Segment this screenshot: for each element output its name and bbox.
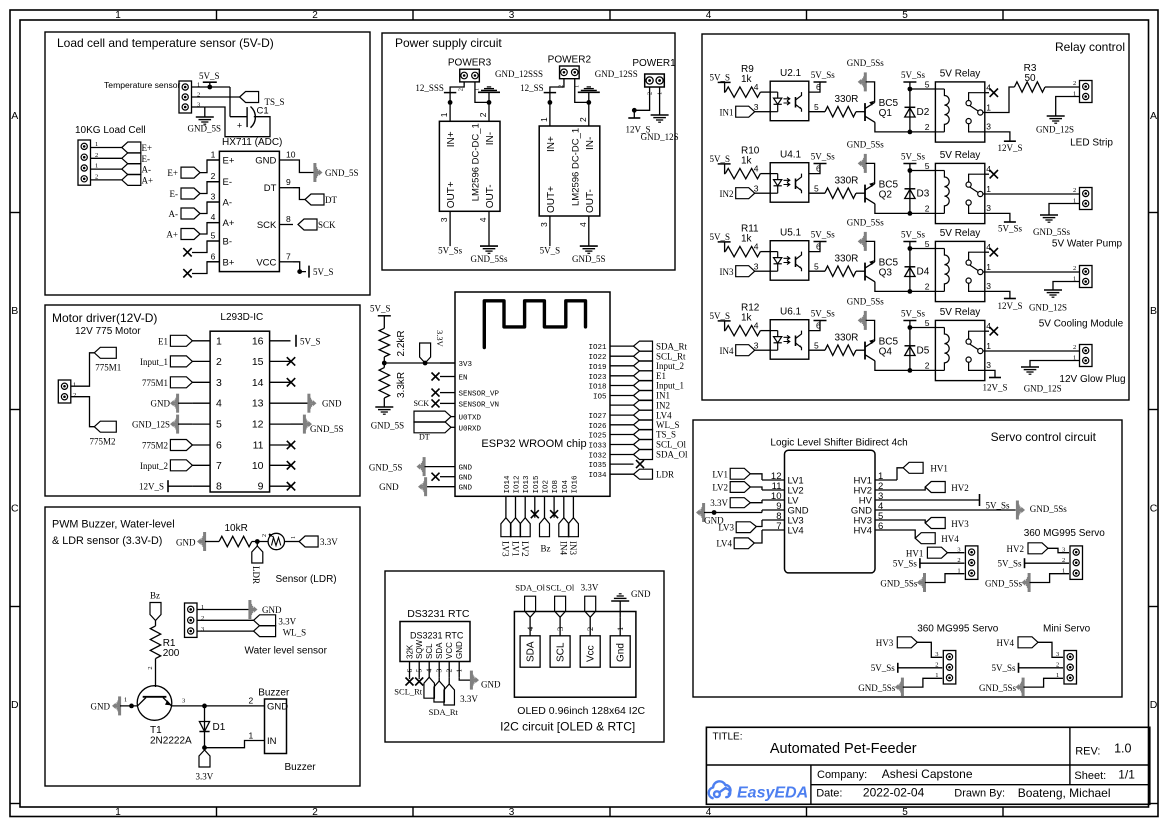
gray flag GND (L293D pin13)	[291, 402, 309, 404]
section box: Servo control circuit	[693, 420, 1122, 697]
wire LDR to 3.3V tag	[285, 541, 300, 543]
svg-text:1: 1	[986, 184, 991, 194]
svg-text:SCK: SCK	[413, 399, 429, 408]
svg-text:IN1: IN1	[656, 391, 670, 401]
svg-text:SDA_Rt: SDA_Rt	[429, 707, 459, 717]
svg-text:E-: E-	[142, 154, 151, 164]
svg-text:5V_Ss: 5V_Ss	[811, 230, 836, 240]
relay K2 pin4 no-connect	[969, 174, 985, 182]
svg-text:1k: 1k	[741, 156, 753, 167]
svg-text:HV4: HV4	[997, 638, 1015, 648]
gray flag GND_5S (HX711)	[313, 163, 316, 182]
svg-text:IO16: IO16	[571, 475, 579, 494]
svg-text:C: C	[1150, 503, 1158, 515]
svg-text:6: 6	[816, 321, 821, 331]
svg-text:10: 10	[286, 150, 296, 160]
optocoupler U6.1 LED	[777, 331, 779, 337]
power flag 12V_S (POWER1)	[628, 117, 640, 119]
svg-text:Gnd: Gnd	[616, 643, 627, 662]
wire Bz to R1	[155, 621, 157, 626]
svg-text:3: 3	[754, 184, 759, 194]
wire E- tag to pin2	[200, 182, 219, 194]
wire relay3 pin1 to header	[985, 271, 1080, 273]
svg-text:SCL: SCL	[425, 643, 434, 659]
no-connect DS3231 32K	[406, 678, 414, 686]
net tag LV4	[734, 538, 754, 549]
svg-text:IO32: IO32	[588, 453, 606, 461]
svg-text:5: 5	[902, 10, 908, 21]
svg-text:GND_5Ss: GND_5Ss	[847, 218, 885, 228]
svg-text:E+: E+	[142, 143, 153, 153]
relay K2 contacts	[966, 182, 971, 187]
wire 5V_Ss to servo pin2	[920, 562, 965, 564]
svg-text:10KG Load Cell: 10KG Load Cell	[75, 125, 146, 136]
svg-text:HV3: HV3	[876, 638, 894, 648]
svg-text:2: 2	[201, 615, 204, 622]
svg-text:DT: DT	[325, 195, 337, 205]
svg-text:U5.1: U5.1	[780, 228, 802, 239]
gray flag GND (water level)	[248, 600, 251, 619]
svg-text:ESP32 WROOM chip: ESP32 WROOM chip	[481, 438, 586, 450]
power flag 5V_Ss (relay2)	[1004, 221, 1016, 223]
OLED pin 1 Gnd	[610, 636, 630, 667]
svg-text:D1: D1	[213, 722, 226, 733]
svg-text:1: 1	[216, 335, 222, 347]
svg-text:D3: D3	[917, 189, 930, 200]
wire relay4 pin1 to header	[985, 350, 1080, 352]
svg-text:5V_S: 5V_S	[710, 311, 731, 321]
relay K3 contacts	[966, 260, 971, 265]
optocoupler U4.1 phototransistor	[795, 179, 797, 190]
wire relay pin5	[910, 88, 936, 90]
svg-text:SENSOR_VP: SENSOR_VP	[459, 391, 500, 399]
svg-text:12V Glow Plug: 12V Glow Plug	[1059, 374, 1125, 385]
net tag 3.3V (LDR)	[299, 536, 318, 547]
svg-text:5V_Ss: 5V_Ss	[438, 246, 463, 256]
svg-text:GND: GND	[459, 485, 473, 493]
svg-text:2: 2	[1073, 265, 1076, 272]
connector servo 3-pin header (HV2)	[1070, 546, 1083, 580]
svg-text:L293D-IC: L293D-IC	[220, 312, 263, 323]
svg-text:12_SSS: 12_SSS	[415, 83, 444, 93]
svg-text:3: 3	[201, 626, 204, 633]
net tag 3.3V (shifter LV)	[730, 498, 750, 508]
svg-text:2: 2	[578, 117, 588, 122]
svg-text:GND_5Ss: GND_5Ss	[847, 297, 885, 307]
svg-text:SDA_Ol: SDA_Ol	[656, 450, 688, 460]
net tag HV2 (shifter)	[897, 487, 925, 490]
relay K4 pin1 stub	[983, 350, 985, 352]
net tag WL_S (water level)	[254, 626, 276, 637]
svg-text:2: 2	[957, 557, 960, 564]
no-connect GND middle	[432, 473, 440, 481]
svg-text:IN4: IN4	[559, 541, 569, 555]
optocoupler U5.1 coupling arrows	[784, 256, 790, 264]
svg-text:3.3V: 3.3V	[196, 772, 214, 782]
svg-text:IO35: IO35	[588, 462, 607, 470]
net tag 775M2 (L293D pin6)	[170, 440, 192, 451]
wire relay4 pin3 to 12V_S	[985, 370, 995, 377]
wire GND_5Ss to servo pin1	[925, 574, 965, 583]
svg-text:4: 4	[706, 10, 712, 21]
svg-text:12_SS: 12_SS	[520, 83, 544, 93]
wire opto pin4 internal	[770, 251, 778, 253]
wire relay1 pin1 to R3	[985, 87, 1015, 113]
svg-text:1: 1	[986, 102, 991, 112]
diode D2 flyback	[909, 82, 911, 132]
svg-text:4: 4	[986, 321, 991, 331]
svg-text:8: 8	[216, 481, 222, 493]
wire motor pin2 to 775M2 tag	[71, 397, 95, 427]
ruler column ticks bottom	[216, 807, 218, 817]
svg-text:Power supply circuit: Power supply circuit	[395, 36, 502, 50]
wire divider mid node	[383, 357, 385, 368]
wire R1 to T1 base	[155, 659, 157, 687]
ground GND_5Ss	[480, 245, 498, 247]
svg-text:5V_Ss: 5V_Ss	[901, 152, 926, 162]
gray flag GND_12S (L293D pin5)	[176, 415, 179, 434]
no-connect DS3231 SQW	[415, 678, 423, 686]
svg-text:5: 5	[211, 231, 216, 241]
wire R3 to LED strip header pin2	[1045, 86, 1080, 88]
IC LM2596 DC-DC_1 body	[539, 126, 600, 216]
svg-text:IN3: IN3	[568, 541, 578, 555]
svg-text:2: 2	[312, 10, 318, 21]
svg-text:GND: GND	[176, 537, 196, 547]
gray flag GND (DS3231)	[470, 671, 473, 690]
svg-text:IO21: IO21	[588, 344, 607, 352]
svg-text:Motor driver(12V-D): Motor driver(12V-D)	[52, 311, 157, 325]
svg-text:HV1: HV1	[906, 549, 924, 559]
svg-text:5V_S: 5V_S	[710, 232, 731, 242]
svg-text:C: C	[11, 503, 19, 515]
svg-text:4: 4	[754, 164, 759, 174]
wire OUT- to GND_5S	[588, 216, 590, 246]
svg-text:A-: A-	[223, 198, 233, 209]
svg-text:Drawn By:: Drawn By:	[954, 788, 1005, 800]
svg-text:HV3: HV3	[951, 519, 969, 529]
svg-text:3: 3	[986, 122, 991, 132]
svg-text:IN2: IN2	[720, 189, 734, 199]
svg-text:5V_Ss: 5V_Ss	[871, 663, 896, 673]
svg-text:E+: E+	[167, 168, 178, 178]
no-connect L293D pin14	[287, 378, 295, 386]
svg-text:PWM Buzzer, Water-level: PWM Buzzer, Water-level	[52, 519, 175, 531]
wire 330R to Q3 base	[856, 270, 865, 272]
svg-text:5: 5	[925, 239, 930, 249]
wire 330R to Q2 base	[856, 192, 865, 194]
relay K4 contacts	[966, 339, 971, 344]
svg-text:5V_Ss: 5V_Ss	[901, 230, 926, 240]
svg-text:Boateng, Michael: Boateng, Michael	[1018, 786, 1111, 800]
wire A+ tag to pin4	[200, 223, 219, 234]
net tag SCK	[298, 219, 317, 230]
no-connect L293D pin9	[287, 482, 295, 490]
svg-text:12: 12	[252, 419, 264, 431]
wire opto pin4 internal	[770, 330, 778, 332]
svg-text:3.3V: 3.3V	[435, 330, 445, 348]
svg-text:1: 1	[986, 262, 991, 272]
svg-text:Buzzer: Buzzer	[258, 688, 290, 699]
power flag 12V_S (relay1)	[1004, 140, 1016, 142]
svg-text:A+: A+	[223, 218, 235, 229]
ESP32 antenna symbol	[484, 301, 585, 348]
svg-text:LV1: LV1	[510, 541, 520, 557]
svg-text:Mini Servo: Mini Servo	[1043, 624, 1091, 635]
no-connect L293D pin15	[287, 357, 295, 365]
wire pump header pin1 to ground	[1049, 204, 1080, 216]
svg-text:2: 2	[249, 696, 254, 706]
wire GND pin10 to GND_5S flag	[293, 160, 314, 173]
wire relay pin5	[910, 327, 936, 329]
net tag 775M2 (motor)	[94, 421, 116, 432]
wire wl pin1 to GND flag	[197, 609, 250, 611]
ruler column ticks top	[216, 10, 218, 20]
svg-text:12V_S: 12V_S	[139, 482, 164, 492]
svg-text:IO4: IO4	[562, 479, 570, 493]
svg-text:U0RXD: U0RXD	[459, 425, 482, 433]
svg-text:Q4: Q4	[879, 347, 893, 358]
svg-text:DS3231 RTC: DS3231 RTC	[407, 608, 470, 620]
IC LM2596 DC-DC_1 body	[439, 121, 500, 211]
wire POWER3 pin1 to ground rail	[475, 82, 489, 121]
svg-text:GND_5Ss: GND_5Ss	[470, 254, 508, 264]
svg-text:GND_12S: GND_12S	[1024, 384, 1062, 394]
no-connect SENSOR_VP	[432, 389, 440, 397]
svg-text:GND_5S: GND_5S	[369, 462, 403, 472]
wire GND_5Ss to servo pin1	[903, 678, 943, 687]
net tag TS_S	[240, 92, 259, 103]
diode D1	[204, 706, 206, 748]
svg-text:A: A	[1150, 110, 1157, 122]
svg-text:1: 1	[249, 730, 254, 740]
net tag E+ (HX711)	[181, 167, 200, 178]
svg-text:GND: GND	[255, 156, 276, 167]
no-connect B+ pin6	[192, 262, 219, 274]
svg-text:1: 1	[1073, 355, 1076, 362]
svg-text:SCL_Rt: SCL_Rt	[394, 687, 423, 697]
svg-text:3: 3	[754, 262, 759, 272]
net tag 775M1 (L293D pin3)	[170, 377, 192, 388]
svg-text:GND: GND	[262, 605, 282, 615]
svg-text:U4.1: U4.1	[780, 150, 802, 161]
optocoupler U2.1 phototransistor	[795, 97, 797, 108]
svg-text:3.3V: 3.3V	[320, 537, 338, 547]
svg-text:1: 1	[986, 341, 991, 351]
OLED pin 3 SCL	[550, 636, 570, 667]
svg-text:5V_Ss: 5V_Ss	[991, 663, 1016, 673]
wire D1 to buzzer pin1	[205, 741, 265, 748]
svg-text:1/1: 1/1	[1118, 768, 1135, 782]
svg-text:7: 7	[216, 460, 222, 472]
connector 12V glow plug 2-pin header	[1080, 345, 1093, 367]
relay K3 pin1 stub	[983, 271, 985, 273]
svg-text:A-: A-	[142, 165, 152, 175]
svg-text:Vcc: Vcc	[586, 645, 597, 662]
diode D4 flyback	[909, 242, 911, 292]
wire 5V_Ss to servo pin2	[1025, 562, 1070, 564]
svg-text:SCL_Ol: SCL_Ol	[546, 583, 575, 593]
svg-text:GND: GND	[379, 482, 399, 492]
wire VCC pin7 to 5V_S	[293, 262, 306, 272]
svg-text:4: 4	[754, 82, 759, 92]
wire E+ tag to pin1	[200, 160, 219, 173]
wire DT pin9 to tag	[293, 188, 305, 200]
wire relay3 pin3 to 12V_S	[985, 291, 1010, 298]
svg-text:GND: GND	[91, 701, 111, 711]
relay K4 pin3 stub	[969, 362, 985, 370]
wire 330R to Q4 base	[856, 349, 865, 351]
wire relay1 pin3 to 12V_S	[985, 132, 1010, 141]
svg-text:SCL_Rt: SCL_Rt	[656, 351, 686, 361]
svg-text:1: 1	[115, 10, 121, 21]
svg-text:4: 4	[986, 242, 991, 252]
svg-text:5V_S: 5V_S	[710, 72, 731, 82]
svg-text:E-: E-	[170, 189, 179, 199]
svg-text:3: 3	[509, 10, 515, 21]
svg-text:GND_5Ss: GND_5Ss	[1030, 504, 1068, 514]
wire opto pin5 to 330R	[809, 270, 825, 272]
svg-text:5V_Ss: 5V_Ss	[893, 559, 918, 569]
svg-text:360 MG995 Servo: 360 MG995 Servo	[917, 624, 999, 635]
svg-text:Buzzer: Buzzer	[285, 762, 317, 773]
svg-text:5: 5	[925, 79, 930, 89]
svg-text:HV1: HV1	[930, 463, 948, 473]
net tag LDR (vertical)	[252, 546, 263, 563]
wire pin1 to 5V_S junction	[192, 86, 231, 88]
OLED pin 4 SDA	[520, 636, 540, 667]
svg-text:LM2596 DC-DC_1: LM2596 DC-DC_1	[570, 128, 581, 206]
svg-text:2: 2	[1056, 662, 1059, 669]
no-connect L293D pin11	[287, 441, 295, 449]
svg-text:330R: 330R	[835, 94, 859, 105]
wire divider node to 3V3 pin	[384, 362, 455, 364]
svg-text:GND_12S: GND_12S	[132, 420, 170, 430]
svg-text:LV4: LV4	[656, 410, 672, 420]
svg-text:5: 5	[902, 807, 908, 818]
svg-text:5: 5	[925, 318, 930, 328]
svg-text:6: 6	[816, 82, 821, 92]
svg-text:SCL: SCL	[556, 642, 567, 662]
svg-text:12V_S: 12V_S	[982, 382, 1007, 392]
svg-text:SDA: SDA	[526, 641, 537, 662]
connector motor 2-pin header	[58, 380, 71, 403]
EasyEDA logo cloud	[709, 781, 731, 798]
net tag SCL_Rt (DS3231 SCL)	[424, 677, 435, 698]
wire OLED Gnd to ground	[619, 601, 621, 617]
svg-text:TS_S: TS_S	[656, 430, 676, 440]
wire HV2 to servo pin3	[1048, 548, 1069, 552]
svg-text:3: 3	[439, 217, 449, 222]
wire 5V_Ss to servo pin2	[898, 667, 943, 669]
svg-text:2: 2	[1073, 187, 1076, 194]
svg-text:5: 5	[216, 419, 222, 431]
svg-text:LV3: LV3	[718, 523, 734, 533]
svg-text:12V_S: 12V_S	[997, 143, 1022, 153]
power flag 5V_Ss (shifter HV)	[897, 499, 980, 501]
svg-text:Input_2: Input_2	[140, 461, 168, 471]
svg-text:330R: 330R	[835, 254, 859, 265]
net tag LV3	[736, 522, 756, 533]
svg-text:TITLE:: TITLE:	[713, 732, 743, 743]
svg-text:GND_12S: GND_12S	[641, 132, 679, 142]
svg-text:3: 3	[509, 807, 515, 818]
svg-text:IO12: IO12	[514, 475, 522, 493]
svg-text:3V3: 3V3	[459, 361, 473, 369]
svg-text:5V_Ss: 5V_Ss	[901, 309, 926, 319]
svg-text:5V_S: 5V_S	[199, 71, 220, 81]
svg-text:D5: D5	[917, 346, 930, 357]
wire relay pin5	[910, 248, 936, 250]
net tag E+ (load cell)	[122, 142, 141, 153]
power flag 12V_S (L293D pin8)	[167, 480, 169, 492]
svg-text:SCL_Ol: SCL_Ol	[656, 440, 687, 450]
relay K2 coil	[935, 170, 944, 172]
net tag SDA_Ol (OLED)	[525, 596, 536, 617]
net tag E- (HX711)	[181, 188, 200, 199]
net tag IN1	[736, 106, 755, 117]
svg-text:5: 5	[814, 184, 819, 194]
svg-text:6: 6	[816, 164, 821, 174]
svg-text:5V_Ss: 5V_Ss	[901, 70, 926, 80]
net tag 3.3V (DS3231 VCC)	[444, 684, 455, 705]
svg-text:HV4: HV4	[854, 526, 872, 537]
svg-text:4: 4	[986, 164, 991, 174]
svg-text:1: 1	[73, 382, 76, 389]
optocoupler U5.1 phototransistor	[795, 257, 797, 268]
svg-text:10kR: 10kR	[225, 523, 248, 534]
svg-text:IN-: IN-	[585, 137, 596, 150]
svg-text:3: 3	[754, 341, 759, 351]
svg-text:IN+: IN+	[446, 131, 457, 147]
wire POWER3 pin2 to 12_SSS rail	[450, 82, 464, 121]
net tag SCL_Ol (OLED)	[555, 596, 566, 617]
wire glow plug header pin1 to ground	[1030, 361, 1080, 368]
svg-text:5V_S: 5V_S	[313, 267, 334, 277]
svg-text:GND_5S: GND_5S	[188, 124, 222, 134]
relay K2 pin3 stub	[969, 205, 985, 213]
svg-text:2: 2	[925, 361, 930, 371]
wire relay pin5	[910, 170, 936, 172]
svg-text:SENSOR_VN: SENSOR_VN	[459, 401, 500, 409]
ground GND (OLED)	[611, 594, 629, 601]
IC U3 HX711 body	[219, 151, 279, 271]
net tag IN3	[736, 266, 755, 277]
svg-text:IO14: IO14	[504, 475, 512, 494]
svg-text:D4: D4	[917, 267, 930, 278]
optocoupler U6.1 coupling arrows	[784, 335, 790, 343]
svg-text:GND: GND	[322, 399, 342, 409]
svg-text:U6.1: U6.1	[780, 307, 802, 318]
wire opto pin4 internal	[770, 173, 778, 175]
svg-text:GND_5Ss: GND_5Ss	[880, 579, 918, 589]
svg-text:DT: DT	[419, 433, 430, 442]
svg-text:IN+: IN+	[546, 136, 557, 152]
no-connect L293D pin10	[287, 461, 295, 469]
svg-text:LM2596 DC-DC_1: LM2596 DC-DC_1	[471, 123, 482, 201]
svg-text:1.0: 1.0	[1114, 742, 1131, 756]
svg-text:2: 2	[147, 666, 154, 669]
net tag 3.3V (D1)	[204, 748, 206, 750]
svg-text:12V 775 Motor: 12V 775 Motor	[75, 326, 141, 337]
relay K4 coil	[935, 327, 944, 329]
svg-text:1k: 1k	[741, 74, 753, 85]
wire HV4 to servo pin3	[1038, 642, 1063, 657]
svg-text:3: 3	[986, 360, 991, 370]
wire OUT- to GND_5Ss	[488, 211, 490, 246]
net tag Input_1 (L293D pin2)	[170, 356, 192, 367]
power flag 12V_S (relay4)	[989, 377, 1001, 379]
